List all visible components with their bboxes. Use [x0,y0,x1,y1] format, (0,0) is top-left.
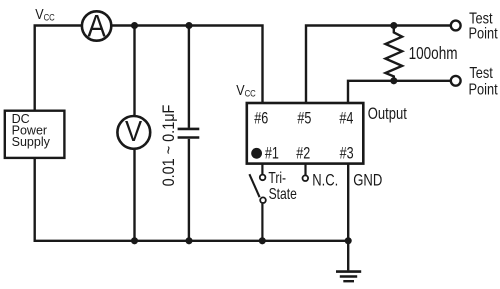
label N.C. [312,171,338,190]
svg-text:#5: #5 [297,109,311,128]
node Vcc (top-left label) [35,6,55,22]
wire Vcc vertical feed to DC supply [34,26,36,111]
value label 0.01 ~ 0.1uF [160,105,178,187]
wire capacitor branch upper [188,26,190,128]
wire pin 5 to top-right rail [306,26,451,104]
wire to ground symbol [347,241,349,271]
svg-text:100ohm: 100ohm [409,45,458,64]
ground symbol [336,272,361,282]
svg-text:#3: #3 [340,144,354,163]
junction dot (resistor bottom) [390,77,397,84]
svg-text:#1: #1 [265,144,279,163]
wire pin 4 to output node [348,81,451,103]
svg-text:Supply: Supply [12,134,51,149]
pin label #4 [339,109,353,128]
svg-text:A: A [87,9,106,44]
junction dot (ground, bottom rail) [345,237,352,244]
svg-text:0.01 ~ 0.1μF: 0.01 ~ 0.1μF [160,105,178,187]
junction dot (switch, bottom rail) [259,237,266,244]
wire pin 1 to switch [261,164,263,175]
junction dot (capacitor, bottom rail) [185,237,192,244]
test point TP1 terminal [451,21,461,31]
N.C. open terminal [303,175,309,181]
wire top rail left (Vcc to ammeter) [34,24,83,26]
junction dot (voltmeter, bottom rail) [131,237,138,244]
wire voltmeter branch upper [133,26,135,117]
test point TP2 terminal [451,76,461,86]
wire pin 3 (GND) to bottom rail [347,164,349,241]
svg-text:State: State [269,185,297,203]
svg-text:GND: GND [353,171,382,190]
svg-text:Test: Test [469,65,492,83]
label Test Point (upper) [469,10,498,43]
wire capacitor branch lower [188,139,190,241]
wire top rail (ammeter to pin #6 corner) [112,26,263,104]
svg-text:#2: #2 [296,144,310,163]
switch S1 bottom terminal [260,197,266,203]
wire switch to bottom rail [261,204,263,241]
junction dot (capacitor tap, top) [185,22,192,29]
resistor R1 100ohm [386,28,403,81]
value label 100ohm [409,45,458,64]
capacitor C1 plates [178,129,200,138]
svg-text:V: V [125,115,142,148]
svg-text:N.C.: N.C. [312,171,338,190]
junction dot (resistor top) [390,22,397,29]
svg-text:#6: #6 [254,109,268,128]
pin label #2 [296,144,310,163]
svg-text:Point: Point [469,25,498,43]
label Output [368,106,408,124]
node Vcc (chip pin 6 label) [236,82,256,98]
pin 1 index dot [251,148,262,159]
pin label #5 [297,109,311,128]
svg-text:#4: #4 [339,109,353,128]
svg-text:Point: Point [469,81,498,99]
junction dot (voltmeter tap, top) [131,22,138,29]
wire voltmeter branch lower [133,149,135,241]
label GND [353,171,382,190]
ammeter A [82,9,111,44]
label Test Point (lower) [469,65,498,99]
label Tri-State [268,168,297,202]
IC U1 (oscillator) body [247,103,363,164]
switch S1 lever [249,174,259,197]
pin label #6 [254,109,268,128]
DC power supply PS1 [5,111,65,158]
svg-text:Tri-: Tri- [268,168,286,186]
svg-text:Output: Output [368,106,408,124]
wire bottom rail [34,240,349,242]
switch S1 tri-state: top terminal [260,175,266,181]
voltmeter V [117,115,150,149]
pin label #1 [265,144,279,163]
wire DC supply to bottom rail [34,158,36,242]
pin label #3 [340,144,354,163]
wire pin 2 stub [304,164,306,176]
